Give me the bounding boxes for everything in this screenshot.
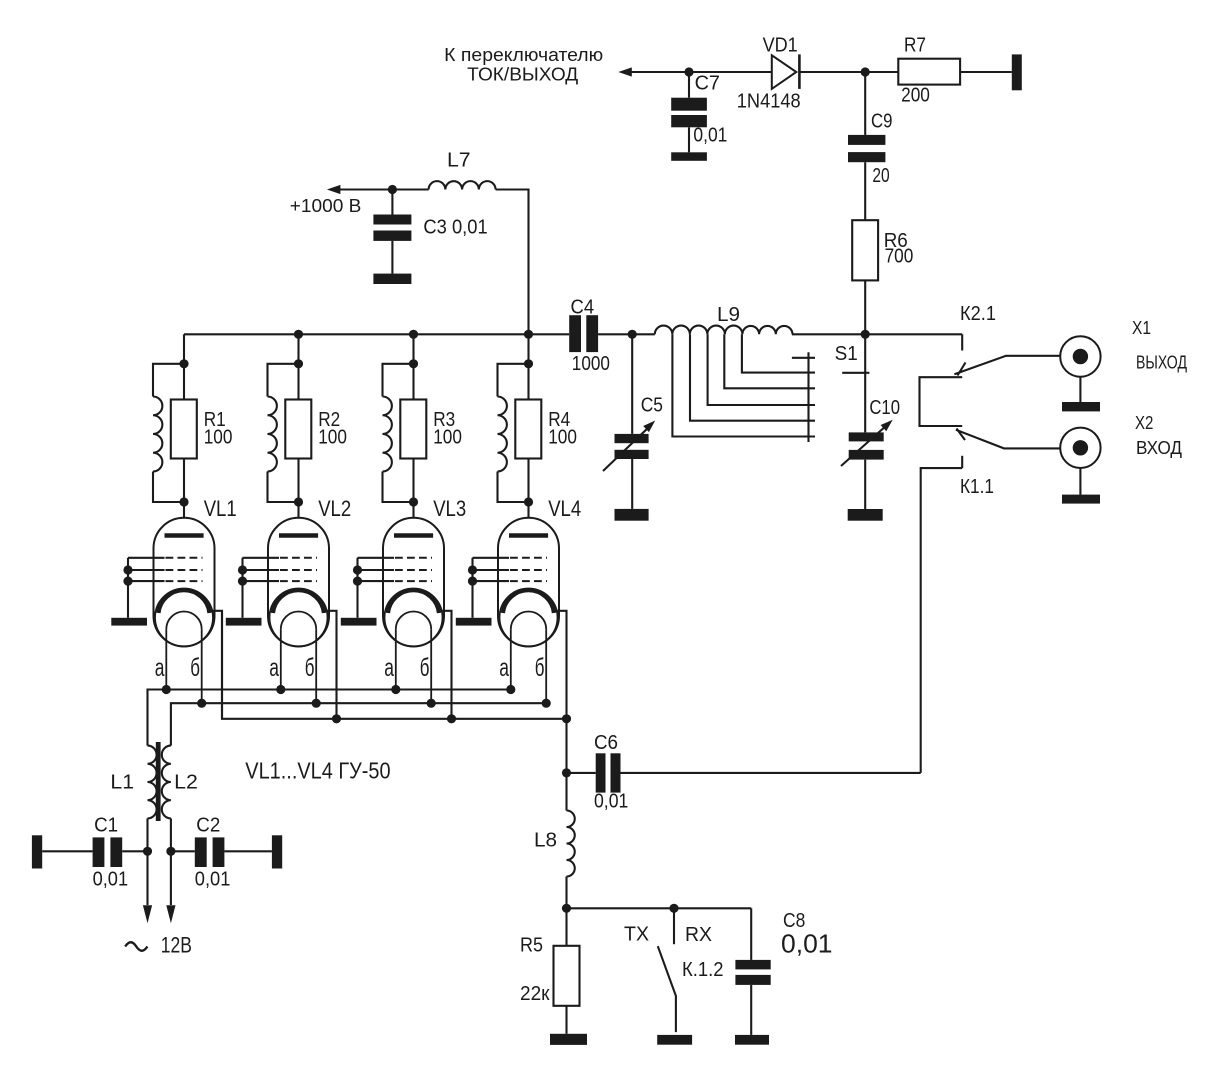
junction: node above C7 [684,67,693,76]
svg-text:б: б [305,654,315,682]
junction: L/R bottom node VL4 [524,497,533,506]
capacitor C1 0,01 [42,815,147,891]
ground: К.1.2 ground bar [657,1035,692,1045]
tube VL1 heater [155,612,202,704]
svg-text:RX: RX [685,924,712,946]
junction: rail node above VL3 [409,330,418,339]
svg-text:VL2: VL2 [318,496,351,521]
ground: C8 ground bar [735,1035,769,1045]
svg-text:VL1...VL4 ГУ-50: VL1...VL4 ГУ-50 [245,758,390,784]
relay contact K1.1 arm [956,430,1060,449]
svg-text:0,01: 0,01 [93,869,129,891]
switch S1 wiper bar [842,372,869,374]
wire: C4 to L9 [598,333,655,335]
wire: L1 bottom to C1 node [146,818,148,905]
svg-text:+1000 В: +1000 В [290,196,362,216]
ground: VL3 grid ground bar [341,618,377,626]
wire: anode rail left section [184,333,569,335]
svg-text:б: б [420,654,430,682]
capacitor C4 1000 [569,297,610,376]
wire: rail to VL4 anode network [527,334,529,364]
svg-text:12В: 12В [161,933,192,958]
ground: R5 ground bar [550,1034,587,1045]
wire: node to C10 [864,334,866,432]
svg-text:C3 0,01: C3 0,01 [423,216,487,238]
resistor R2 100 [285,364,347,502]
svg-text:C4: C4 [571,297,595,319]
wire: rail to VL1 anode network [183,334,185,364]
capacitor C10 (variable) [841,397,900,509]
net label: К переключателю ТОК/ВЫХОД [444,45,603,85]
ground: C5 bottom bar [615,509,649,521]
junction: rail node above VL4 [524,330,533,339]
svg-text:VL3: VL3 [433,496,466,521]
tube VL3 ГУ-50 [383,496,466,647]
svg-text:К переключателю: К переключателю [444,45,603,65]
tube VL3 grids [353,558,432,618]
svg-text:100: 100 [318,426,347,448]
capacitor C8 0,01 [735,908,832,1035]
junction: cathode pins [332,714,571,723]
ground: R7 right terminal bar [1012,54,1022,90]
wire: L9 tap 3 [708,334,815,405]
svg-text:1N4148: 1N4148 [737,90,801,112]
svg-text:L7: L7 [447,150,471,172]
ground: VL2 grid ground bar [226,618,262,626]
svg-text:C9: C9 [871,110,893,132]
svg-text:1000: 1000 [572,353,610,375]
svg-text:L2: L2 [174,772,198,794]
wire: K1.1 stub down to C6 line [921,468,963,773]
tube VL1 grids [123,558,202,618]
svg-text:X1: X1 [1132,318,1151,338]
svg-text:100: 100 [204,426,233,448]
relay contact K1.1 tick [957,429,966,441]
inductor L6 [498,364,529,502]
capacitor C7 [671,72,727,152]
wire: cathode bus [222,611,567,773]
wire: X2 to ground [1079,468,1081,495]
wire: VL4 cathode lead [554,611,567,719]
inductor L8 [534,773,575,908]
ground: C7 bottom bar [671,152,707,161]
inductor L3 [153,364,184,502]
svg-text:200: 200 [901,85,930,107]
junction: C1 node [143,847,152,856]
svg-text:VL1: VL1 [204,496,237,521]
wire: L9 tap 4 [690,334,815,420]
svg-text:C10: C10 [869,397,900,419]
wire: L9 tap 1 [742,334,815,372]
wire: X1 to ground [1079,377,1081,402]
core: L1/L2 choke core [156,742,161,821]
capacitor C5 (variable) [603,395,663,509]
resistor R7 200 [898,34,960,106]
tube type label [245,758,390,784]
svg-text:L8: L8 [534,830,557,852]
junction: RX node [669,904,678,913]
ground: VL1 grid ground bar [111,618,147,626]
inductor L1 (filament choke winding) [110,746,156,819]
svg-text:а: а [499,654,509,682]
capacitor C6 0,01 [567,732,629,813]
svg-text:R5: R5 [520,935,543,957]
wire: L9 end tap stub [792,357,815,359]
relay contact K2.1 fixed stub [960,303,996,351]
ground: X2 ground bar [1062,495,1100,504]
inductor L2 (filament choke winding) [162,746,198,819]
junction: L/R top node VL3 [409,359,418,368]
junction: L/R top node VL2 [294,359,303,368]
tube VL4 grids [468,558,547,618]
tube VL2 grids [238,558,317,618]
svg-text:0,01: 0,01 [195,869,231,891]
svg-text:20: 20 [872,165,889,187]
svg-text:а: а [384,654,394,682]
junction: L/R bottom node VL2 [294,497,303,506]
junction: L/R top node VL4 [524,359,533,368]
ground: C10 bottom bar [848,509,883,521]
svg-text:L9: L9 [717,304,740,326]
ground: C2 right terminal bar [272,835,282,868]
wire: 12V feed arrows [143,905,176,923]
wire: L2 bottom to C2 node [170,818,172,905]
wire: node to C5 [631,334,633,434]
svg-text:X2: X2 [1135,413,1153,433]
svg-text:C1: C1 [94,815,118,837]
wire: VL2 cathode lead [324,611,337,719]
diode VD1 1N4148 [737,34,801,112]
svg-text:S1: S1 [835,343,858,365]
capacitor C2 0,01 [171,815,272,891]
capacitor C3 0,01 [373,190,487,274]
net label: +1000 В [290,196,362,216]
junction: C4/C5/L9 node [628,330,637,339]
svg-text:0,01: 0,01 [693,125,727,147]
wire: +1000V feed with arrowhead [327,185,429,194]
wire: L9 tap 2 [724,334,815,388]
wire: node to R7 [865,71,898,73]
wire: output line to switch with arrowhead [618,67,689,76]
relay contact K2.1 tick [958,363,966,376]
svg-text:22к: 22к [520,983,550,1005]
wire: L9 tap 5 [672,334,815,436]
junction: а pins [162,685,516,694]
switch S1 contact rail [807,352,809,442]
resistor R3 100 [400,364,462,502]
junction: C3/L7 node [388,185,397,194]
svg-text:б: б [190,654,200,682]
svg-text:C6: C6 [594,732,618,754]
inductor L7 [429,150,496,190]
junction: C2 node [166,847,175,856]
svg-text:а: а [155,654,165,682]
junction: L/R bottom node VL3 [409,497,418,506]
tube VL4 ГУ-50 [498,496,581,647]
svg-text:C5: C5 [641,395,663,417]
svg-text:ВЫХОД: ВЫХОД [1136,352,1187,372]
junction: L/R bottom node VL1 [179,497,188,506]
inductor L5 [383,364,414,502]
svg-text:VD1: VD1 [763,34,798,56]
relay contact K1.1 fixed stub [960,456,994,498]
svg-text:TX: TX [624,924,649,946]
tube VL3 heater [384,612,431,704]
relay contact К.1.2 (TX/RX) [624,908,724,1032]
junction: L/R top node VL1 [179,359,188,368]
svg-text:К2.1: К2.1 [960,303,996,325]
wire: C6 to K1.1 feed line [621,772,921,774]
svg-text:700: 700 [885,246,914,268]
ground: VL4 grid ground bar [456,618,492,626]
wire: node to VD1 anode [689,71,772,73]
wire: VD1 cathode to node [799,71,865,73]
svg-text:б: б [535,654,545,682]
wire: R7 to terminal [960,71,1012,73]
svg-text:C7: C7 [695,73,720,95]
wire: VL3 cathode lead [439,611,452,719]
resistor R1 100 [171,364,233,502]
tube VL2 ГУ-50 [268,496,351,647]
svg-text:C2: C2 [196,815,220,837]
svg-text:0,01: 0,01 [594,791,628,813]
wire: heater bus а [148,690,512,746]
tube VL2 heater [269,612,316,704]
wire: L9 to K2.1 corner [792,333,962,335]
svg-text:100: 100 [548,426,577,448]
junction: VD1/R7/C9 node [861,67,870,76]
svg-text:К1.1: К1.1 [960,476,994,498]
ground: C1 left terminal bar [32,835,42,868]
svg-text:0,01: 0,01 [781,929,833,959]
wire: node to RX and C8 [567,907,752,909]
svg-text:VL4: VL4 [548,496,581,521]
ground: X1 ground bar [1062,402,1100,411]
wire: heater bus б [171,703,546,745]
relay contact K2.1 arm [954,356,1060,374]
inductor L4 [268,364,299,502]
connector X1 ВЫХОД [1060,318,1187,377]
connector X2 ВХОД [1060,413,1182,468]
wire: rail to VL2 anode network [297,334,299,364]
resistor R5 22к [520,908,580,1034]
svg-text:ТОК/ВЫХОД: ТОК/ВЫХОД [467,65,578,85]
svg-text:R7: R7 [904,34,926,56]
junction: L8/R5/K1.2 node [562,904,571,913]
wire: rail to VL3 anode network [412,334,414,364]
net label: ~ 12В [125,933,192,958]
junction: б pins [197,699,551,708]
svg-text:ВХОД: ВХОД [1136,438,1182,458]
svg-text:L1: L1 [110,772,134,794]
wire: L7 to anode rail [496,190,529,335]
tube VL1 ГУ-50 [154,496,237,647]
svg-text:100: 100 [433,426,462,448]
switch S1 label [835,343,858,365]
svg-text:а: а [269,654,279,682]
wire: VL1 cathode lead [210,611,223,719]
ground: C3 bottom bar [373,274,411,284]
capacitor C9 20 [848,72,893,220]
resistor R6 700 [852,220,913,280]
junction: L9/R6/C10 node [861,330,870,339]
wire: bracket between K2.1 and K1.1 [920,377,963,426]
junction: cathode/C6/L8 node [562,768,571,777]
junction: rail node above VL2 [294,330,303,339]
svg-text:К.1.2: К.1.2 [682,959,724,981]
resistor R4 100 [515,364,577,502]
tube VL4 heater [499,612,546,704]
wire: R6 to anode rail [864,280,866,334]
inductor L9 [655,304,793,334]
